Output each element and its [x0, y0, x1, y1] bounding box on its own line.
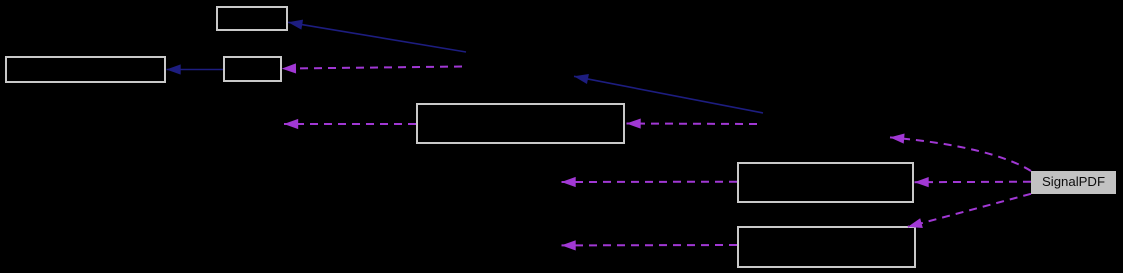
node box3 (small class box, label hidden): [224, 57, 281, 81]
node SignalPDF (current class, grey fill): [1031, 171, 1116, 194]
node box5 (right upper class box, label hidden): [738, 163, 913, 202]
node box2 (wide class box left, label hidden): [6, 57, 165, 82]
node box4 (middle class box, label hidden): [417, 104, 624, 143]
edge blue solid: hidden node B to hidden node A: [574, 76, 763, 113]
edge purple dashed: box4 to hidden node left: [284, 123, 416, 125]
edge purple dashed: SignalPDF to box5: [915, 181, 1032, 184]
svg-text:SignalPDF: SignalPDF: [1042, 174, 1105, 189]
edge purple dashed: hidden node B to box4: [627, 123, 758, 126]
edge purple dashed: box6 to hidden node left: [562, 244, 738, 246]
edge purple dashed: hidden node A to box3: [282, 67, 462, 69]
edge purple dashed: SignalPDF to hidden node B (curved): [890, 137, 1031, 171]
edge blue solid: box3 to box2: [167, 69, 224, 71]
edge purple dashed: box5 to hidden node left: [562, 181, 738, 183]
node box6 (right lower class box, label hidden): [738, 227, 915, 267]
node box1 (top small class box, label hidden): [217, 7, 287, 30]
edge purple dashed: SignalPDF to box6: [908, 194, 1031, 227]
edge blue solid: hidden node A to box1: [288, 22, 466, 52]
